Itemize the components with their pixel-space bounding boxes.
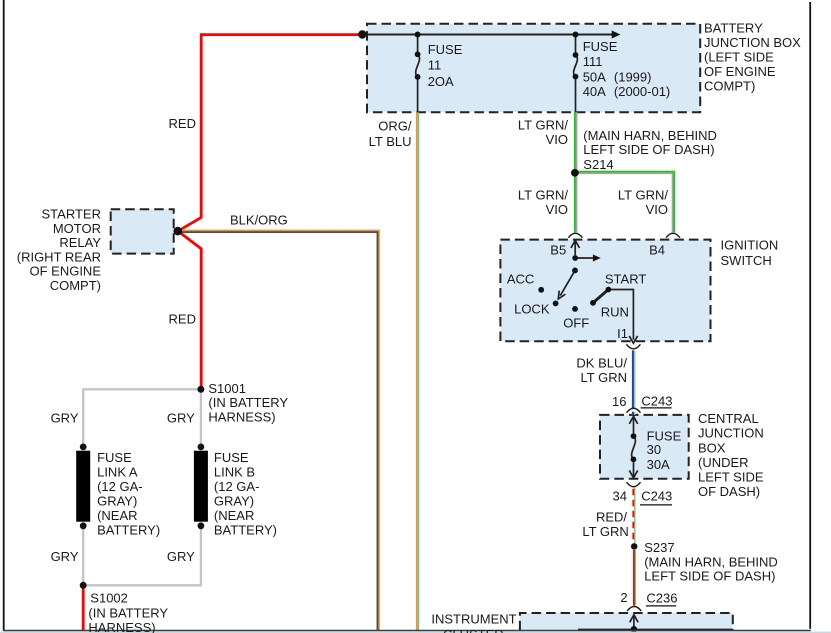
svg-text:(2000-01): (2000-01) — [614, 84, 670, 99]
svg-text:FUSE: FUSE — [428, 42, 463, 57]
svg-text:VIO: VIO — [546, 202, 568, 217]
svg-text:40A: 40A — [583, 84, 606, 99]
svg-text:OF ENGINE: OF ENGINE — [704, 64, 776, 79]
svg-text:OFF: OFF — [563, 316, 589, 331]
svg-text:ACC: ACC — [507, 271, 534, 286]
svg-text:RED/: RED/ — [596, 510, 627, 525]
svg-text:START: START — [605, 271, 646, 286]
svg-text:DK BLU/: DK BLU/ — [576, 356, 627, 371]
svg-text:FUSE: FUSE — [214, 450, 249, 465]
svg-text:(1999): (1999) — [614, 70, 652, 85]
svg-text:OF ENGINE: OF ENGINE — [29, 264, 101, 279]
svg-text:50A: 50A — [583, 70, 606, 85]
svg-text:111: 111 — [583, 54, 603, 69]
svg-text:RED: RED — [169, 312, 196, 327]
svg-text:S237: S237 — [644, 540, 674, 555]
svg-text:LINK B: LINK B — [214, 464, 255, 479]
svg-text:HARNESS): HARNESS) — [208, 409, 275, 424]
svg-text:(12 GA-: (12 GA- — [97, 479, 143, 494]
svg-text:S1001: S1001 — [208, 381, 246, 396]
svg-text:LT GRN/: LT GRN/ — [518, 188, 568, 203]
svg-text:(MAIN HARN, BEHIND: (MAIN HARN, BEHIND — [644, 554, 778, 569]
svg-text:S1002: S1002 — [90, 591, 128, 606]
svg-text:FUSE: FUSE — [583, 39, 618, 54]
svg-text:(MAIN HARN, BEHIND: (MAIN HARN, BEHIND — [583, 128, 717, 143]
svg-text:30: 30 — [647, 442, 661, 457]
svg-text:BLK/ORG: BLK/ORG — [230, 213, 288, 228]
svg-text:FUSE: FUSE — [97, 450, 132, 465]
svg-text:OF DASH): OF DASH) — [698, 484, 760, 499]
svg-text:LT GRN: LT GRN — [581, 370, 627, 385]
svg-text:11: 11 — [428, 58, 442, 73]
svg-text:B5: B5 — [550, 242, 566, 257]
svg-text:GRY: GRY — [51, 410, 79, 425]
svg-text:SWITCH: SWITCH — [721, 253, 772, 268]
svg-text:GRY: GRY — [167, 410, 195, 425]
svg-text:(NEAR: (NEAR — [97, 508, 137, 523]
svg-text:2: 2 — [620, 590, 627, 605]
svg-text:IGNITION: IGNITION — [721, 238, 779, 253]
svg-text:(IN BATTERY: (IN BATTERY — [208, 395, 288, 410]
svg-text:LEFT SIDE OF DASH): LEFT SIDE OF DASH) — [644, 569, 775, 584]
svg-text:BATTERY: BATTERY — [704, 20, 763, 35]
svg-text:LOCK: LOCK — [514, 302, 550, 317]
svg-text:GRY: GRY — [167, 549, 195, 564]
svg-text:INSTRUMENT: INSTRUMENT — [431, 612, 516, 627]
svg-text:(UNDER: (UNDER — [698, 455, 749, 470]
svg-text:JUNCTION: JUNCTION — [698, 426, 764, 441]
svg-text:RED: RED — [169, 116, 196, 131]
svg-text:HARNESS): HARNESS) — [88, 620, 155, 633]
svg-text:CENTRAL: CENTRAL — [698, 411, 759, 426]
svg-text:2OA: 2OA — [428, 74, 454, 89]
svg-text:S214: S214 — [583, 157, 613, 172]
svg-text:GRY: GRY — [51, 549, 79, 564]
svg-text:I1: I1 — [617, 326, 628, 341]
svg-text:(IN BATTERY: (IN BATTERY — [88, 605, 168, 620]
svg-text:JUNCTION BOX: JUNCTION BOX — [704, 35, 801, 50]
svg-text:BATTERY): BATTERY) — [97, 523, 160, 538]
svg-text:GRAY): GRAY) — [214, 493, 254, 508]
svg-text:(RIGHT REAR: (RIGHT REAR — [17, 249, 101, 264]
svg-text:34: 34 — [613, 488, 627, 503]
svg-text:COMPT): COMPT) — [50, 278, 101, 293]
svg-text:LEFT SIDE OF DASH): LEFT SIDE OF DASH) — [583, 142, 714, 157]
svg-text:LT GRN/: LT GRN/ — [518, 118, 568, 133]
svg-text:VIO: VIO — [546, 132, 568, 147]
svg-text:LEFT SIDE: LEFT SIDE — [698, 470, 764, 485]
svg-text:LT GRN: LT GRN — [582, 524, 628, 539]
svg-text:STARTER: STARTER — [42, 207, 101, 222]
svg-text:LT BLU: LT BLU — [369, 134, 412, 149]
svg-text:GRAY): GRAY) — [97, 493, 137, 508]
svg-text:ORG/: ORG/ — [378, 119, 412, 134]
svg-text:C236: C236 — [646, 590, 677, 605]
svg-text:BOX: BOX — [698, 440, 726, 455]
svg-text:C243: C243 — [641, 489, 672, 504]
svg-text:BATTERY): BATTERY) — [214, 523, 277, 538]
svg-text:RUN: RUN — [601, 304, 629, 319]
svg-text:CLUSTER: CLUSTER — [443, 627, 504, 633]
svg-text:LT GRN/: LT GRN/ — [618, 188, 668, 203]
svg-text:(LEFT SIDE: (LEFT SIDE — [704, 49, 774, 64]
svg-text:16: 16 — [612, 394, 626, 409]
svg-text:(12 GA-: (12 GA- — [214, 479, 260, 494]
svg-text:COMPT): COMPT) — [704, 78, 755, 93]
svg-text:C243: C243 — [641, 394, 672, 409]
svg-text:MOTOR: MOTOR — [53, 221, 101, 236]
svg-text:(NEAR: (NEAR — [214, 508, 254, 523]
svg-text:VIO: VIO — [646, 202, 668, 217]
svg-text:LINK A: LINK A — [97, 464, 138, 479]
svg-text:RELAY: RELAY — [59, 235, 101, 250]
svg-text:30A: 30A — [647, 457, 670, 472]
svg-text:B4: B4 — [649, 242, 665, 257]
